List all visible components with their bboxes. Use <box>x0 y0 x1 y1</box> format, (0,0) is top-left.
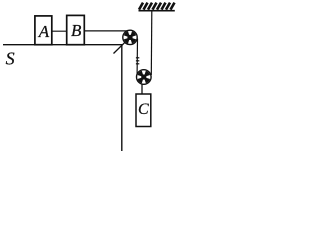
block C <box>136 94 151 127</box>
wire link pulley P2 to block C <box>141 83 143 95</box>
surface S vertical edge <box>121 44 123 151</box>
surface S horizontal line <box>3 44 123 46</box>
tick marks on string <box>136 58 139 64</box>
block B <box>67 15 85 44</box>
block A <box>35 16 52 45</box>
wire string pulley P1 down to pulley P2 <box>136 39 138 75</box>
ceiling hatching <box>139 3 175 10</box>
bracket support of pulley P1 <box>114 37 131 53</box>
wire string A to B <box>51 30 68 32</box>
wire string B to pulley P1 <box>84 30 130 32</box>
svg-text:S: S <box>6 49 15 69</box>
ceiling bar <box>139 10 175 12</box>
svg-text:A: A <box>38 22 50 41</box>
pulley P1 <box>123 30 137 44</box>
svg-text:C: C <box>138 101 149 118</box>
wire string ceiling to pulley P2 <box>150 11 153 75</box>
pulley P2 <box>137 70 152 85</box>
svg-text:B: B <box>71 21 82 40</box>
